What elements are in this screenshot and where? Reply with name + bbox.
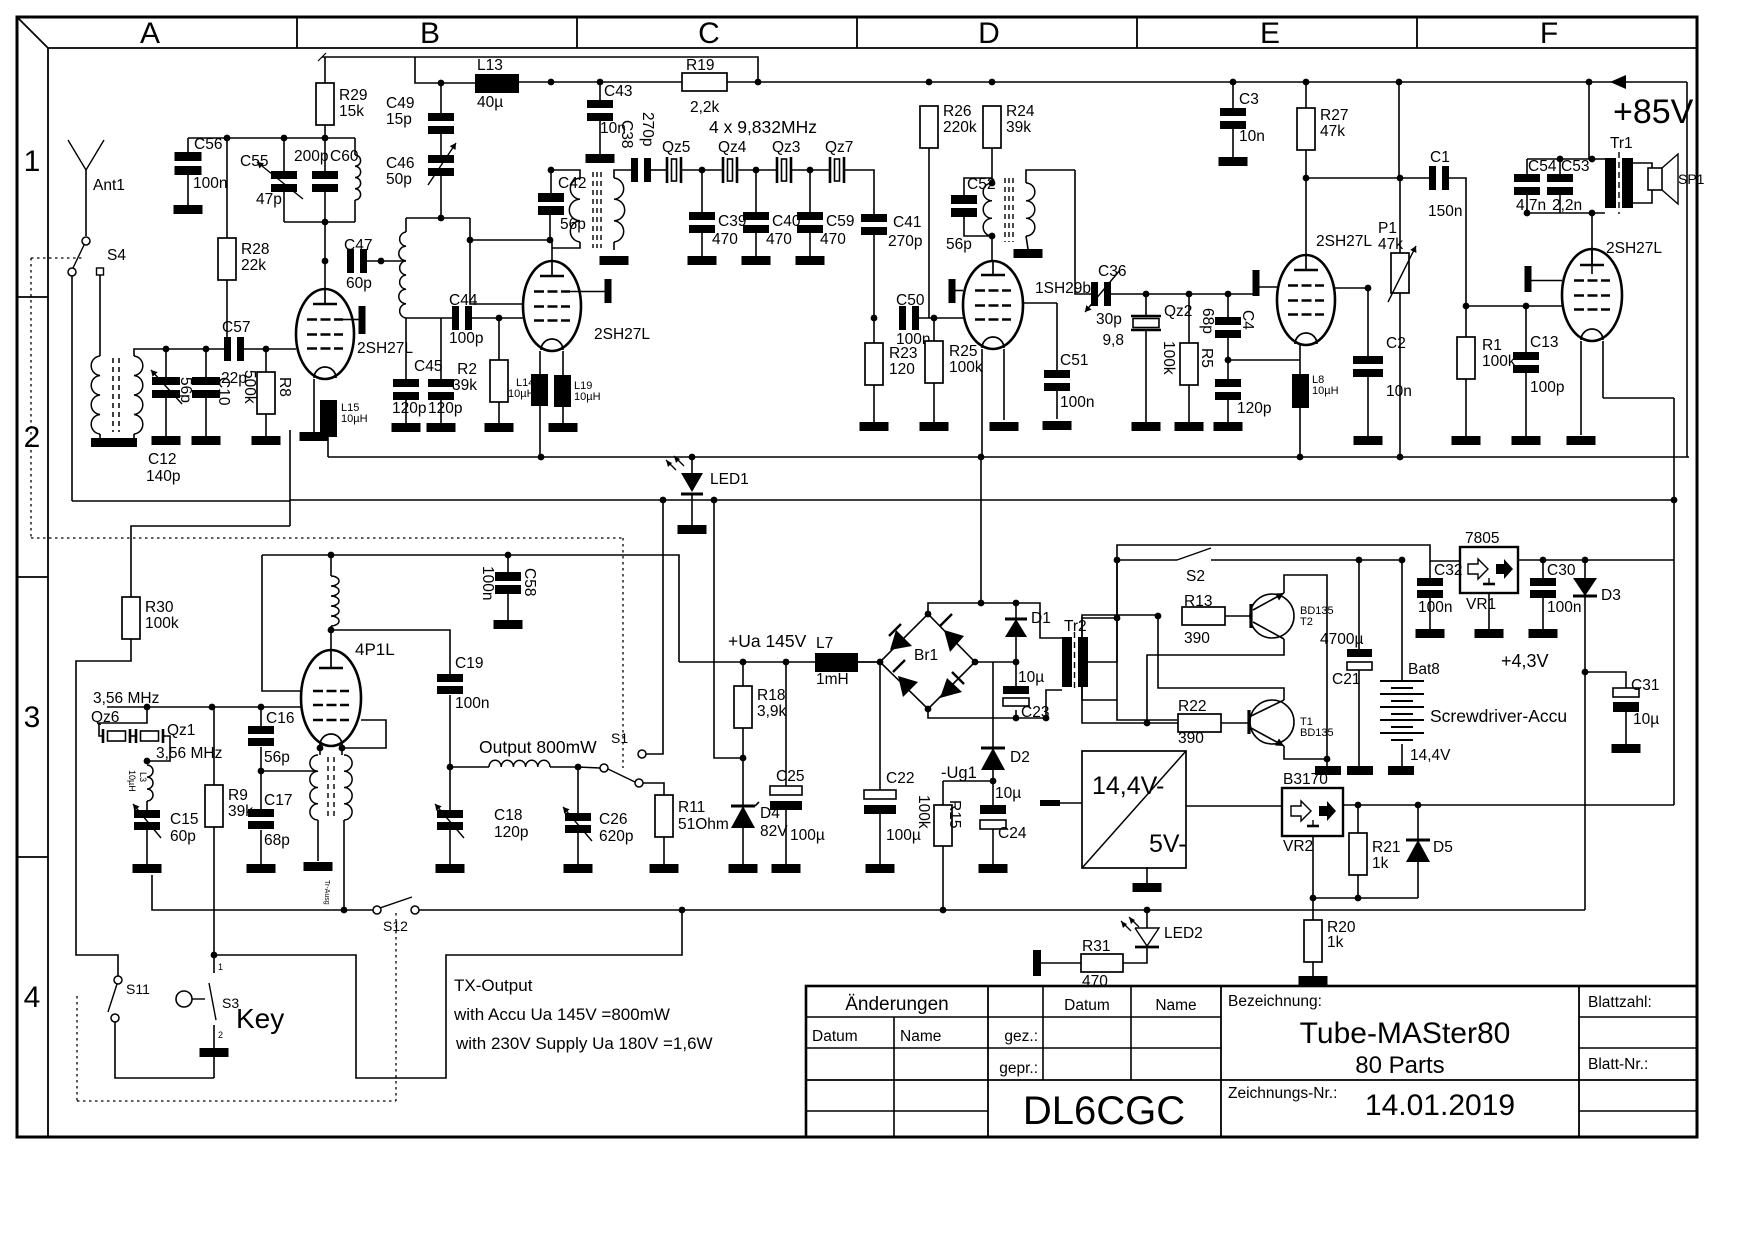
- wire Qz6-Qz1: [130, 735, 136, 737]
- wire R26 bottom: [928, 148, 930, 318]
- wire to tube2 grid: [470, 218, 523, 304]
- wire tube4 lead2: [1003, 349, 1005, 420]
- node bus x=992: [989, 79, 996, 86]
- wire C31 branch: [1585, 672, 1626, 688]
- svg-text:Ant1: Ant1: [93, 177, 125, 194]
- node rail LED2: [1144, 907, 1151, 914]
- wire R15 stem: [942, 781, 944, 805]
- wire 7805 feed: [1117, 545, 1460, 561]
- wire C45b top: [440, 318, 442, 379]
- node R13 left: [1155, 613, 1162, 620]
- node battery tap: [1399, 557, 1406, 564]
- wire S2 rail a: [1117, 559, 1177, 561]
- svg-text:Tr2: Tr2: [1064, 618, 1087, 635]
- wire R29 bottom: [324, 125, 326, 138]
- node anode 4P1L: [328, 627, 335, 634]
- ground tube4: [990, 422, 1019, 431]
- crystal Qz2: [1131, 315, 1161, 317]
- wire top +85V feed upper: [322, 57, 758, 82]
- ground C25: [772, 864, 801, 873]
- ground C22: [866, 864, 895, 873]
- svg-text:1SH29b: 1SH29b: [1035, 280, 1091, 297]
- transformer TrB right coil: [614, 178, 625, 242]
- wire OTr right bottom: [343, 820, 345, 910]
- svg-text:Tr1: Tr1: [1610, 135, 1633, 152]
- capacitor C15: [134, 810, 160, 818]
- node y159 right: [1589, 156, 1596, 163]
- wire C10 stem: [205, 349, 207, 377]
- node Tr2 sec top: [1114, 615, 1121, 622]
- wire C17 gnd: [260, 830, 262, 864]
- regulator VR1 7805 box: [1460, 547, 1518, 593]
- wire C15 gnd: [146, 830, 148, 864]
- wire Tr1 sec top: [1633, 163, 1652, 170]
- svg-text:2: 2: [24, 421, 41, 454]
- wire C26 gnd: [577, 833, 579, 864]
- node bus x=551: [548, 79, 555, 86]
- wire C51 gnd: [1056, 391, 1058, 419]
- wire D5 stem: [1417, 805, 1419, 840]
- svg-text:C51: C51: [1060, 352, 1088, 369]
- svg-text:C47: C47: [344, 237, 372, 254]
- switch S1 lever: [608, 769, 635, 782]
- ground 120p (D): [1214, 422, 1243, 431]
- resistor R13: [1182, 607, 1225, 625]
- capacitor C39: [689, 212, 715, 220]
- capacitor C53: [1547, 174, 1573, 182]
- arrow +85V: [1610, 75, 1626, 89]
- wire Qz6 feed: [99, 707, 147, 736]
- svg-text:51Ohm: 51Ohm: [678, 816, 729, 833]
- frame column separator 5: [1416, 17, 1418, 48]
- regulator VR2 B3170 box: [1282, 788, 1343, 836]
- svg-text:C13: C13: [1530, 334, 1558, 351]
- node C23 top: [1013, 659, 1020, 666]
- svg-text:10µH: 10µH: [574, 391, 601, 403]
- svg-text:120p: 120p: [428, 400, 462, 417]
- svg-text:gez.:: gez.:: [1004, 1028, 1038, 1045]
- resistor R24: [983, 106, 1001, 148]
- node y500 S1: [660, 497, 667, 504]
- node L3 top: [144, 758, 151, 765]
- wire C22 stem: [879, 662, 881, 790]
- node bus x=1233: [1230, 79, 1237, 86]
- svg-text:R15: R15: [946, 800, 963, 828]
- wire to tube1 anode: [324, 222, 326, 289]
- svg-text:Zeichnungs-Nr.:: Zeichnungs-Nr.:: [1228, 1085, 1337, 1102]
- frame row separator 1: [17, 296, 48, 298]
- svg-text:D1: D1: [1031, 610, 1051, 627]
- wire 4P1L screen loop: [345, 720, 386, 748]
- capacitor C1: [1429, 166, 1436, 190]
- svg-text:Qz3: Qz3: [772, 139, 800, 156]
- wire Qz3-Qz7: [791, 169, 830, 171]
- wire C32 gnd: [1429, 598, 1431, 629]
- inductor L14: [531, 374, 548, 406]
- transformer TrD core x=1013: [1012, 178, 1014, 242]
- svg-text:-Ug1: -Ug1: [941, 764, 977, 782]
- svg-text:50p: 50p: [386, 171, 412, 188]
- wire C13 stem: [1525, 306, 1527, 352]
- svg-text:3,56 MHz: 3,56 MHz: [93, 690, 159, 707]
- title block v-line 5: [1220, 986, 1222, 1137]
- node C4 bottom: [1225, 357, 1232, 364]
- transformer OTr right coil: [344, 755, 352, 820]
- wire R2 top: [498, 318, 500, 360]
- svg-text:Name: Name: [900, 1028, 941, 1045]
- LED LED1: [681, 473, 703, 492]
- svg-text:470: 470: [766, 231, 792, 248]
- wire tube5 anode up: [1591, 213, 1593, 274]
- tube V6 4P1L: [301, 650, 361, 746]
- transformer Tr-A left coil: [91, 356, 100, 434]
- transformer TrB core x=601: [600, 172, 602, 248]
- wire OTr left bottom: [317, 820, 319, 861]
- svg-text:C52: C52: [967, 176, 995, 193]
- svg-text:68p: 68p: [1199, 308, 1216, 334]
- ground converter: [1133, 883, 1162, 892]
- wire Tr2 fb top: [1082, 615, 1157, 637]
- svg-text:1k: 1k: [1372, 855, 1389, 872]
- wire R30 top link: [131, 526, 290, 597]
- capacitor C32: [1417, 578, 1443, 586]
- ground C24: [979, 864, 1008, 873]
- converter 14.4V-5V box: [1082, 751, 1186, 868]
- svg-text:Br1: Br1: [914, 647, 938, 664]
- svg-text:C45: C45: [414, 358, 442, 375]
- converter input tick: [1040, 800, 1060, 806]
- wire C43 lower stem: [599, 121, 601, 154]
- svg-text:10µH: 10µH: [127, 770, 137, 792]
- ground C40: [742, 256, 771, 265]
- frame column separator 3: [856, 17, 858, 48]
- node R1 top: [1463, 303, 1470, 310]
- wire C45a stem: [405, 318, 407, 379]
- node y138 x=227: [224, 135, 231, 142]
- wire S1 common: [578, 767, 600, 768]
- capacitor C4: [1215, 317, 1241, 325]
- node y294 x=1228: [1225, 291, 1232, 298]
- svg-text:30p: 30p: [1096, 311, 1122, 328]
- wire out coil left: [450, 766, 489, 768]
- bridge diode 2: [944, 630, 964, 652]
- arrow C46 variable: [428, 143, 456, 185]
- tube V3 2SH27L: [1277, 255, 1335, 345]
- wire y500 long: [290, 499, 1674, 501]
- wire 120p gnd: [1227, 400, 1229, 422]
- svg-text:100n: 100n: [193, 175, 227, 192]
- node R22 left: [1144, 720, 1151, 727]
- node R18 top: [740, 659, 747, 666]
- wire C42 stem up: [549, 214, 551, 240]
- svg-text:100k: 100k: [915, 795, 932, 829]
- tube V1 2SH27L: [296, 289, 354, 379]
- node y213 C54: [1524, 210, 1531, 217]
- wire C59 gnd stem: [809, 233, 811, 256]
- frame corner diagonal: [17, 17, 48, 48]
- wire C25 gnd: [785, 810, 787, 864]
- ground R8: [252, 436, 281, 445]
- ground D4: [729, 864, 758, 873]
- VR2 arrow out: [1319, 801, 1336, 821]
- wire C55 top stem: [283, 138, 285, 171]
- resistor R19: [682, 73, 727, 91]
- grid cap tube2: [605, 279, 612, 303]
- svg-text:100p: 100p: [449, 330, 483, 347]
- wire C38-Qz5: [651, 169, 667, 171]
- arrow P1: [1388, 246, 1416, 302]
- switch S11 lever: [108, 984, 117, 1012]
- wire R25 gnd: [933, 383, 935, 422]
- svg-text:Tube-MASter80: Tube-MASter80: [1300, 1017, 1511, 1050]
- svg-text:A: A: [140, 17, 160, 50]
- svg-text:C59: C59: [826, 213, 854, 230]
- wire C56 stem: [187, 138, 189, 152]
- svg-text:C22: C22: [886, 770, 914, 787]
- svg-text:C18: C18: [494, 807, 522, 824]
- svg-text:4P1L: 4P1L: [355, 640, 395, 659]
- svg-text:14,4V: 14,4V: [1410, 747, 1451, 764]
- resistor R25: [925, 341, 943, 383]
- wire C40 gnd stem: [755, 233, 757, 256]
- svg-text:120p: 120p: [392, 400, 426, 417]
- svg-text:Key: Key: [236, 1003, 284, 1034]
- transistor T1: [1250, 700, 1294, 744]
- wire +85V drop to Tr1: [1588, 82, 1590, 159]
- svg-text:LED2: LED2: [1164, 925, 1203, 942]
- node y707 x=261: [258, 704, 265, 711]
- svg-text:S1: S1: [611, 730, 628, 746]
- resistor R2: [490, 360, 508, 402]
- svg-text:4 x 9,832MHz: 4 x 9,832MHz: [709, 117, 817, 137]
- svg-text:B3170: B3170: [1283, 771, 1328, 788]
- wire TrB right top: [614, 170, 631, 178]
- bridge diode 1: [890, 630, 912, 650]
- arrow C15 variable: [133, 804, 161, 838]
- wire bridge right: [975, 661, 1016, 663]
- bridge diode 3: [898, 676, 918, 697]
- resistor R5: [1180, 343, 1198, 385]
- svg-text:R21: R21: [1372, 839, 1400, 856]
- capacitor C44: [452, 306, 459, 330]
- svg-text:R27: R27: [1320, 107, 1348, 124]
- wire VR1 out: [1518, 559, 1674, 561]
- node output right: [575, 764, 582, 771]
- svg-text:470: 470: [1082, 973, 1108, 990]
- wire P1 bottom: [1399, 293, 1401, 457]
- svg-text:60p: 60p: [346, 275, 372, 292]
- capacitor C59: [797, 212, 823, 220]
- wire R21 top: [1357, 805, 1359, 833]
- svg-text:R18: R18: [757, 687, 785, 704]
- wire C49 stem: [440, 83, 442, 113]
- node R15 top: [990, 778, 997, 785]
- transformer TrD left coil: [983, 183, 992, 236]
- node bridge top: [925, 611, 932, 618]
- wire R28 bottom: [226, 280, 228, 338]
- capacitor C45a: [393, 379, 419, 387]
- wire L8 bottom: [1299, 408, 1301, 457]
- svg-text:+4,3V: +4,3V: [1501, 651, 1549, 671]
- ground C39: [688, 256, 717, 265]
- node C49 top: [438, 80, 445, 87]
- svg-text:120p: 120p: [494, 824, 528, 841]
- wire T2 emitter lead: [1284, 575, 1327, 759]
- wire VR2 gnd: [1312, 836, 1314, 898]
- ground LED1: [678, 525, 707, 534]
- capacitor C21: [1347, 649, 1372, 657]
- wire Tr2 sec bottom: [1082, 687, 1117, 700]
- wire C39 stem: [701, 170, 703, 212]
- wire grid line y349 right: [243, 348, 296, 350]
- transformer TrB core x=593: [592, 172, 594, 248]
- capacitor 120p (D): [1215, 379, 1241, 387]
- node TrD left bottom: [989, 233, 996, 240]
- ground C2: [1354, 436, 1383, 445]
- svg-text:VR2: VR2: [1283, 838, 1313, 855]
- inductor B-coil: [399, 232, 406, 318]
- node rail457 x=692: [689, 454, 696, 461]
- wire cathode rail y457: [328, 456, 1689, 458]
- inductor anode choke: [331, 576, 339, 626]
- frame row separator 2: [17, 576, 48, 578]
- svg-text:C17: C17: [264, 792, 292, 809]
- svg-text:with Accu Ua 145V =800mW: with Accu Ua 145V =800mW: [453, 1005, 670, 1024]
- wire out coil right: [550, 766, 578, 768]
- transformer Tr2 winding 1: [1062, 637, 1072, 687]
- svg-text:C2: C2: [1386, 335, 1406, 352]
- ground T1: [1315, 766, 1341, 775]
- svg-text:DL6CGC: DL6CGC: [1023, 1089, 1185, 1133]
- wire C24 stem: [992, 781, 994, 805]
- wire riser 981: [980, 457, 982, 603]
- svg-text:C55: C55: [240, 153, 268, 170]
- capacitor C57: [224, 337, 231, 361]
- svg-text:140p: 140p: [146, 468, 180, 485]
- wire tube4 cath: [981, 349, 983, 457]
- wire C19 bottom: [449, 695, 451, 767]
- wire vr2 node line: [1313, 897, 1418, 899]
- node crystal line left: [548, 167, 555, 174]
- node otr right: [339, 745, 346, 752]
- wire LED1 stem: [691, 457, 693, 473]
- wire R31 left: [1041, 962, 1081, 964]
- wire R5 gnd: [1188, 385, 1190, 422]
- resistor R11: [655, 795, 673, 837]
- wire C56 lower: [187, 175, 189, 205]
- ground C31: [1612, 744, 1641, 753]
- svg-text:620p: 620p: [599, 828, 633, 845]
- wire ant box bottom: [72, 500, 290, 502]
- title block v-line 4: [1130, 986, 1132, 1080]
- node rail457 x=1300: [1297, 454, 1304, 461]
- diode D3: [1573, 578, 1597, 596]
- svg-text:Tr-Ausg: Tr-Ausg: [323, 880, 330, 905]
- wire bus drop 1399: [1398, 82, 1400, 178]
- node rail457 x=981: [978, 454, 985, 461]
- wire Qz2 gnd: [1145, 330, 1147, 422]
- frame left band line: [47, 48, 49, 1137]
- svg-text:2,2k: 2,2k: [690, 99, 720, 116]
- dotted link S12-S11 v2: [76, 996, 78, 1101]
- transformer OTr left coil: [310, 755, 318, 820]
- wire tube5 heater: [1603, 397, 1674, 399]
- ground R11: [650, 864, 679, 873]
- svg-text:15k: 15k: [339, 103, 364, 120]
- wire battery bottom: [1401, 744, 1403, 766]
- svg-text:500k: 500k: [241, 370, 258, 404]
- svg-text:15p: 15p: [386, 111, 412, 128]
- wire R23 top: [873, 318, 875, 343]
- wire T1 collector lead: [1158, 616, 1284, 700]
- svg-text:3,56 MHz: 3,56 MHz: [156, 745, 222, 762]
- ground C43: [586, 154, 615, 163]
- switch S12 contact R: [411, 906, 419, 914]
- VR1 gnd tick: [1488, 578, 1490, 584]
- wire C2 gnd: [1367, 377, 1369, 436]
- wire C58 gnd stem: [507, 594, 509, 620]
- bridge Br1 outline: [880, 614, 975, 709]
- wire +85V bus right of R19: [724, 81, 1687, 83]
- svg-text:22k: 22k: [241, 257, 266, 274]
- wire C16 stem: [260, 707, 262, 726]
- node y898 a: [1310, 895, 1317, 902]
- svg-text:C36: C36: [1098, 263, 1126, 280]
- frame column separator 4: [1136, 17, 1138, 48]
- ground R5: [1175, 422, 1204, 431]
- wire anode tube2 up: [551, 240, 553, 261]
- svg-text:C56: C56: [194, 136, 222, 153]
- switch S12 contact L: [373, 906, 381, 914]
- svg-text:S4: S4: [107, 247, 126, 264]
- wire D4 gnd: [742, 828, 744, 864]
- svg-text:Qz5: Qz5: [662, 139, 690, 156]
- node bus x=1589: [1586, 79, 1593, 86]
- tube V2 2SH27L: [523, 261, 581, 351]
- wire TrB right bottom: [613, 242, 615, 250]
- node bus-R19 join: [755, 79, 762, 86]
- wire TrD to C36: [1075, 170, 1091, 294]
- node y138 x=325: [322, 135, 329, 142]
- ground C56: [174, 205, 203, 214]
- svg-text:100k: 100k: [1482, 353, 1516, 370]
- inductor L3: [147, 765, 153, 801]
- capacitor 56p (ant): [152, 377, 180, 385]
- wire anode to C19: [331, 630, 450, 674]
- transformer Tr-A core 2: [118, 358, 120, 432]
- node R21 top: [1355, 802, 1362, 809]
- wire R20 bottom: [1312, 962, 1314, 976]
- wire converter to VR2: [1186, 805, 1282, 807]
- node bus x=1306: [1303, 79, 1310, 86]
- wire 120p top: [1227, 360, 1229, 379]
- resistor R27: [1297, 108, 1315, 150]
- ground TrB: [600, 256, 629, 265]
- wire S1 to R11: [643, 783, 664, 795]
- svg-text:Änderungen: Änderungen: [845, 994, 949, 1015]
- svg-text:C24: C24: [998, 825, 1027, 842]
- capacitor C47: [347, 249, 354, 273]
- wire Tr-A bottoms: [99, 434, 101, 438]
- svg-text:BD135: BD135: [1300, 727, 1334, 739]
- wire C31 gnd: [1625, 712, 1627, 744]
- wire 4P1L grid1 riser: [262, 555, 301, 691]
- svg-text:C54: C54: [1528, 158, 1557, 175]
- wire anode link: [470, 239, 549, 241]
- wire y213: [1527, 212, 1605, 214]
- svg-text:TX-Output: TX-Output: [454, 976, 533, 995]
- wire tube4 out: [1023, 302, 1057, 304]
